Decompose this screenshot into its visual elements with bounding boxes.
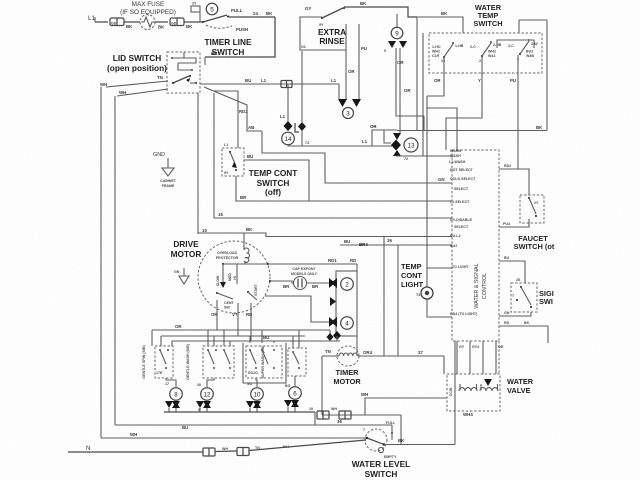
timer motor coil xyxy=(339,353,357,356)
wire vertical from lid switch bottom left xyxy=(197,93,199,234)
water valve dashed enclosure xyxy=(447,374,500,411)
extra rinse switch blade xyxy=(305,6,345,27)
wire speed switch feed row 3 xyxy=(172,340,340,342)
wire neutral line xyxy=(68,451,203,453)
wire motor to capacitor xyxy=(270,281,293,283)
wire tap into drive motor xyxy=(243,233,245,250)
faucet switch blade xyxy=(528,197,539,217)
wire capacitor to terminal 2 xyxy=(306,282,329,284)
water temp switch contact 3 xyxy=(508,39,538,61)
terminal 4 circle xyxy=(341,317,354,330)
water temp switch contact 1 xyxy=(432,42,464,63)
wire PU drop from extra rinse xyxy=(358,24,360,99)
connector triangle in valve xyxy=(484,379,492,386)
switch bank 2 contacts xyxy=(207,349,231,369)
connector plug on neutral xyxy=(203,448,215,456)
connector triangles at terminal 4 xyxy=(329,317,335,327)
wire connector to fuse xyxy=(124,21,140,23)
wire mid bus down to water level row xyxy=(400,415,402,445)
terminal 9 circle xyxy=(391,14,403,39)
connector triangles under terminal 9 xyxy=(388,41,396,48)
label WATER LEVEL SWITCH xyxy=(352,459,410,479)
wire inner rail x=423 xyxy=(422,33,424,156)
wire dashed select rail xyxy=(498,341,500,374)
connector triangles under terminal 10 xyxy=(246,401,254,408)
switch bank 1 contacts xyxy=(156,349,169,375)
lid switch dashed enclosure xyxy=(167,52,200,93)
wire drop from contact 2 xyxy=(446,57,482,150)
wire signal return xyxy=(499,312,531,316)
connector plug on L1 run xyxy=(281,81,292,88)
wire terminal 4 drop to switch row xyxy=(336,336,338,341)
wire row BU lower to control xyxy=(340,244,452,246)
wire feed drops into switch banks xyxy=(207,330,209,346)
wire water temp feed frame xyxy=(416,17,418,131)
wire signal low return xyxy=(499,325,548,327)
wire timer column to bottom bus xyxy=(321,356,323,415)
wire row BU to control (from temp cont switch) xyxy=(244,160,309,202)
wire from terminal 9 down right leg xyxy=(399,48,401,133)
lid switch internal contacts xyxy=(171,52,197,84)
wire WH diagonal upper to left rail xyxy=(106,81,168,87)
ground GND symbol xyxy=(153,152,177,188)
control terminal labels xyxy=(449,149,478,316)
wire OR row crossing to control xyxy=(397,130,547,132)
temp cont light bulb xyxy=(416,287,433,299)
wire drop OR from contact 1 xyxy=(427,58,444,96)
motor winding med xyxy=(236,264,238,284)
connector plug 2 on mid bus xyxy=(339,411,351,419)
label WATER TEMP SWITCH xyxy=(473,3,502,28)
wire timer motor left xyxy=(322,355,339,357)
switch bank 1 dashed box xyxy=(155,346,173,378)
connector diamond on staircase xyxy=(298,122,306,131)
label EXTRA RINSE xyxy=(318,27,346,46)
signal switch blade xyxy=(512,286,532,308)
terminal 8 circle xyxy=(170,388,183,401)
wire faucet return xyxy=(499,219,529,227)
wire switch to right xyxy=(229,16,275,18)
water temp switch dashed enclosure xyxy=(429,33,542,73)
terminal 3 circle xyxy=(343,108,354,119)
wire row from lid rail 2 to control with motor tap xyxy=(198,233,452,237)
connector triangles at terminal 2 xyxy=(329,278,335,288)
wire valve drop xyxy=(443,356,445,374)
wire mid bus with plugs xyxy=(322,414,401,416)
connector mate mark xyxy=(295,123,299,132)
wire bus down to border xyxy=(314,412,316,425)
wire branch to RD drop xyxy=(214,91,238,148)
label TIMER LINE SWITCH xyxy=(204,37,251,57)
label TIMER MOTOR xyxy=(333,368,361,386)
wire motor internal bus xyxy=(223,263,272,265)
drive motor dashed outline xyxy=(198,241,270,313)
wire rail left of light xyxy=(383,237,385,357)
wire drop from enclosure corner xyxy=(345,50,347,99)
wire terminal bus xyxy=(164,411,315,413)
terminal 2 circle xyxy=(341,278,354,291)
wire signal feed xyxy=(499,261,525,283)
signal switch dashed enclosure xyxy=(511,283,537,312)
wire right side down and back (timer line switch loop) xyxy=(205,17,275,57)
wire left rail WH outer xyxy=(100,87,102,438)
jumper wire assembly 3 xyxy=(497,40,534,48)
timer motor dashed outline xyxy=(337,346,359,366)
switch bank 4 contacts xyxy=(292,351,300,369)
wire drop PU from contact 3 xyxy=(517,55,519,169)
label TEMP CONT LIGHT xyxy=(401,262,424,289)
connector plug 2 xyxy=(170,18,193,29)
wire into lid switch top xyxy=(204,57,206,65)
switch bank 2 dashed box xyxy=(203,346,234,378)
wire row from temp cont bottom to control xyxy=(236,176,452,201)
wire control to valve drops xyxy=(456,341,458,374)
capacitor symbol xyxy=(294,277,307,290)
wire water level to right rail xyxy=(384,444,455,446)
terminal 6 circle xyxy=(289,387,302,400)
motor winding slow xyxy=(222,264,224,287)
wire right rail up to control xyxy=(454,341,456,445)
wire border bottom inner xyxy=(115,424,392,426)
extra rinse switch enclosure xyxy=(300,17,346,50)
wire lamp feed top xyxy=(427,267,452,269)
wire border bottom outer xyxy=(101,437,366,439)
connector triangle above terminal 13 xyxy=(393,133,401,140)
terminal 12 circle xyxy=(201,388,214,401)
wire motor main to RD rail xyxy=(268,263,357,265)
connector triangles at terminal 3 xyxy=(338,99,347,107)
label FAUCET SWITCH xyxy=(514,234,555,251)
water temp switch contact 2 xyxy=(470,41,502,63)
water valve solenoid cold xyxy=(449,384,477,396)
connector diamond below terminal 4 xyxy=(333,331,341,340)
connector diamond above terminal 14 xyxy=(284,121,293,131)
water valve solenoid hot xyxy=(480,384,498,391)
connector plug 2 on neutral xyxy=(237,448,249,456)
connector triangle below terminal 13 xyxy=(393,150,401,156)
connector triangles under terminal 6 xyxy=(284,400,292,407)
water level switch body xyxy=(363,421,397,459)
connector plug on L1 line xyxy=(110,18,133,29)
label MAX FUSE (IF SO EQUIPPED) xyxy=(120,1,176,16)
connector diamond at terminal 13 xyxy=(391,140,401,151)
wire speed switch feed row OR xyxy=(152,329,330,331)
label SIGNAL SWITCH (cut) xyxy=(539,289,554,306)
connector stub above node xyxy=(191,2,200,23)
wire right rail of water temp switch xyxy=(546,20,548,131)
ground at drive motor xyxy=(174,268,189,284)
wire row GN to control xyxy=(262,131,452,183)
wire second left rail WH xyxy=(114,96,116,425)
label WATER VALVE xyxy=(507,377,534,395)
faucet switch dashed enclosure xyxy=(520,195,544,223)
wire rail 2 left of light xyxy=(397,245,399,356)
wire timer motor to valve row xyxy=(358,355,444,357)
temp cont switch dashed enclosure xyxy=(222,148,244,176)
wire WH diagonal lower to second rail xyxy=(117,89,168,96)
wire connector 2 to switch node xyxy=(184,21,203,23)
wire BU lid switch to right (L1 run) xyxy=(200,83,339,85)
wire L1 corner into plug 3 xyxy=(338,84,340,99)
wire bank drops to terminals xyxy=(166,378,176,387)
wire row from lid rail to control xyxy=(214,217,452,219)
terminal 13 circle xyxy=(404,138,418,152)
terminal 5 circle xyxy=(206,3,218,15)
wire motor bottom exits xyxy=(216,300,218,330)
wire fuse to connector 2 xyxy=(155,21,168,23)
wire vertical from lid switch bottom right xyxy=(213,93,215,218)
label DRIVE MOTOR xyxy=(171,239,202,259)
label LID SWITCH (open position) xyxy=(107,53,167,73)
wire speed switch feed row 2 xyxy=(161,335,305,337)
water and signal control dashed enclosure xyxy=(452,150,499,341)
wire lamp bottom to control xyxy=(427,299,452,317)
connector diamond on OR feed xyxy=(327,333,334,341)
terminal 14 circle xyxy=(282,132,295,145)
wire terminal drops to bus xyxy=(168,408,170,412)
temp cont switch contacts xyxy=(224,143,237,175)
start winding switch xyxy=(247,283,258,300)
wire RD rail down to timer row xyxy=(356,264,358,271)
wire staircase from extra rinse enclosure to OR row xyxy=(301,51,303,122)
label TEMP CONT SWITCH (off) xyxy=(249,168,298,197)
connector plug on mid bus xyxy=(317,411,329,419)
wire motor start to terminal 4 xyxy=(265,296,329,322)
timer line switch blade xyxy=(202,8,248,32)
connector triangle mid block xyxy=(330,297,336,306)
motor terminal block box xyxy=(336,271,357,336)
wire L1 to connector xyxy=(95,21,108,23)
switch bank 4 dashed box xyxy=(288,348,306,376)
centrifugal switch xyxy=(216,292,235,310)
wire from terminal 9 down left leg xyxy=(396,48,424,116)
wire inner rail to lamp column xyxy=(426,96,428,287)
wire extra rinse to water temp area xyxy=(344,7,417,17)
overload protector xyxy=(216,248,250,264)
wire branch down to plug 14 xyxy=(287,84,289,121)
connector triangles under terminal 12 xyxy=(196,401,204,408)
switch bank 3 contacts xyxy=(248,349,275,375)
wire valve WH return xyxy=(365,398,447,415)
wire terminal 14 to terminal 13 xyxy=(288,145,392,146)
wire from 13 cluster to control box xyxy=(396,155,452,157)
wire faucet feed xyxy=(499,169,529,195)
fuse MAX FUSE symbol xyxy=(140,15,165,30)
switch bank 3 box xyxy=(243,343,286,383)
terminal 10 circle xyxy=(251,388,264,401)
connector triangles under terminal 8 xyxy=(165,401,173,408)
